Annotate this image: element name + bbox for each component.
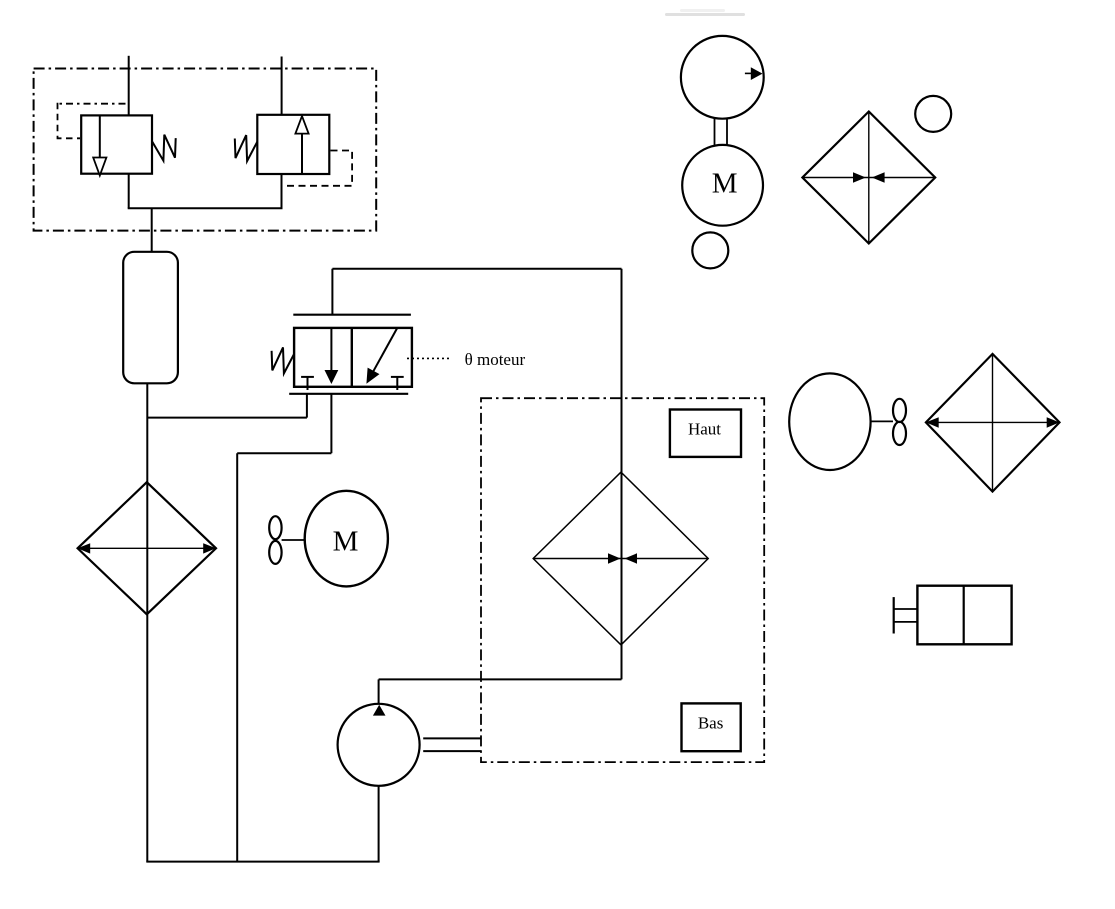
svg-text:Bas: Bas bbox=[698, 714, 724, 733]
svg-text:M: M bbox=[712, 168, 738, 200]
svg-text:θ moteur: θ moteur bbox=[465, 350, 526, 369]
svg-text:Haut: Haut bbox=[688, 420, 721, 439]
svg-text:M: M bbox=[333, 526, 359, 558]
